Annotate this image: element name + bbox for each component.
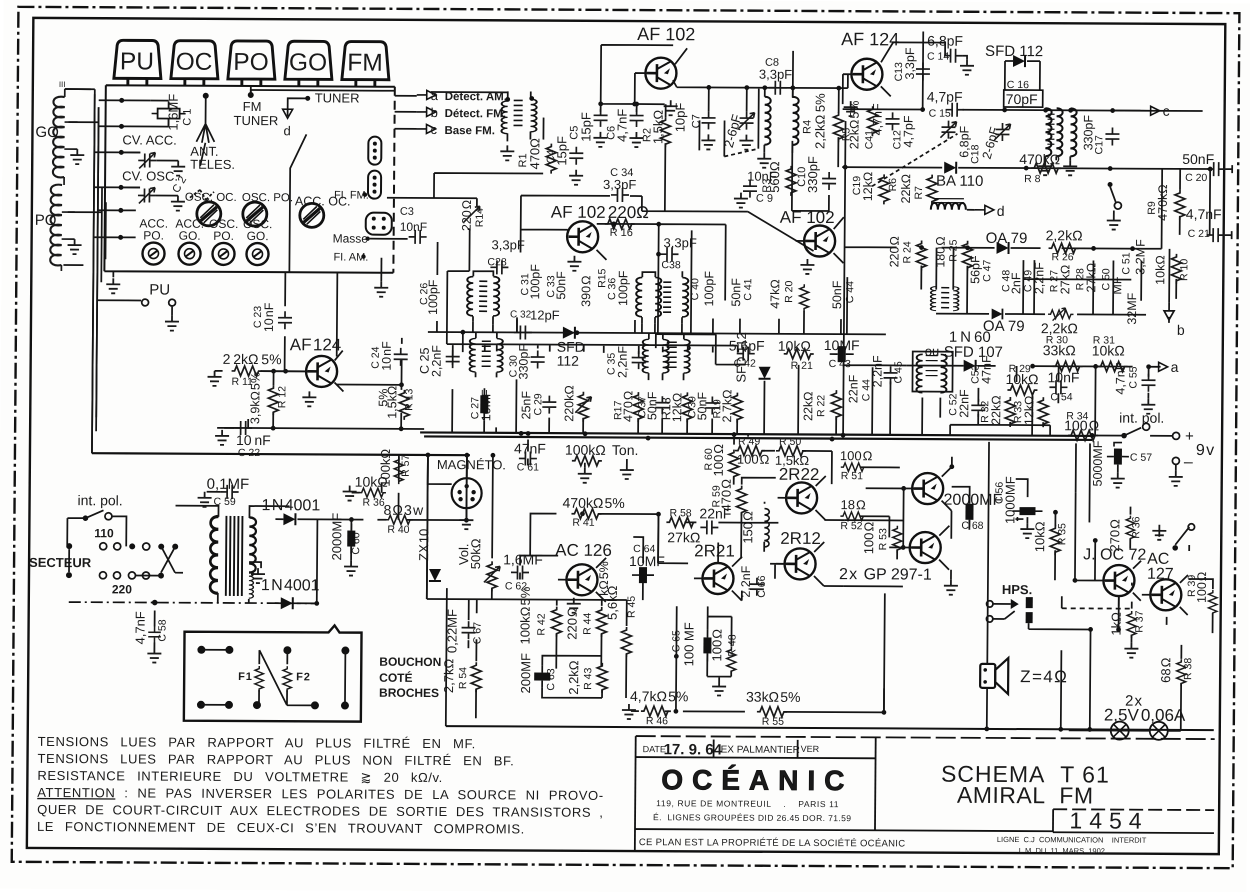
svg-text:R 20: R 20 bbox=[783, 280, 795, 302]
svg-text:COTÉ: COTÉ bbox=[379, 670, 412, 685]
svg-text:AC 126: AC 126 bbox=[555, 541, 612, 560]
svg-text:10 nF: 10 nF bbox=[262, 302, 276, 332]
svg-text:AF 102: AF 102 bbox=[637, 24, 695, 44]
svg-text:R 36: R 36 bbox=[363, 497, 385, 509]
svg-text:R 44: R 44 bbox=[582, 612, 594, 634]
svg-text:LIGNE C.J COMMUNICATION I: LIGNE C.J COMMUNICATION INTERDIT bbox=[997, 835, 1147, 845]
svg-text:47nF: 47nF bbox=[979, 355, 993, 384]
svg-text:R 50: R 50 bbox=[779, 436, 801, 448]
svg-text:DATE: DATE bbox=[643, 744, 666, 754]
svg-text:C 57: C 57 bbox=[1130, 452, 1152, 464]
svg-text:R 43: R 43 bbox=[582, 667, 594, 689]
svg-text:10nF: 10nF bbox=[1047, 369, 1079, 385]
svg-text:d: d bbox=[997, 203, 1005, 219]
svg-text:TENSIONS LUES PAR RAPPORT: TENSIONS LUES PAR RAPPORT AU PLUS NON FI… bbox=[37, 751, 514, 768]
svg-text:C 58: C 58 bbox=[156, 619, 168, 641]
svg-text:180 Ω: 180 Ω bbox=[933, 236, 947, 267]
svg-text:R14: R14 bbox=[474, 208, 486, 227]
svg-text:Détect. AM.: Détect. AM. bbox=[445, 91, 507, 103]
svg-text:50nF: 50nF bbox=[645, 391, 659, 420]
svg-text:10pF: 10pF bbox=[672, 103, 687, 133]
svg-text:18 Ω: 18 Ω bbox=[840, 497, 866, 512]
svg-text:R 24: R 24 bbox=[901, 241, 913, 263]
svg-text:1kΩ: 1kΩ bbox=[1109, 612, 1124, 636]
svg-text:22nF: 22nF bbox=[846, 374, 860, 403]
svg-text:C3: C3 bbox=[400, 206, 414, 218]
svg-text:C 14: C 14 bbox=[927, 51, 949, 63]
svg-text:É. LIGNES GROUPÉES DID 26.45: É. LIGNES GROUPÉES DID 26.45 DOR. 71.59 bbox=[653, 812, 851, 823]
svg-text:–: – bbox=[1184, 454, 1193, 471]
svg-text:22nF: 22nF bbox=[957, 389, 971, 418]
svg-text:2R12: 2R12 bbox=[780, 529, 821, 548]
svg-text:220 Ω: 220 Ω bbox=[460, 200, 474, 231]
svg-text:c: c bbox=[430, 122, 437, 137]
svg-text:22kΩ: 22kΩ bbox=[899, 174, 913, 204]
svg-text:100kΩ 5%: 100kΩ 5% bbox=[517, 586, 532, 644]
svg-text:270 Ω: 270 Ω bbox=[1107, 519, 1122, 552]
svg-text:150 Ω: 150 Ω bbox=[740, 511, 755, 544]
svg-text:R 52: R 52 bbox=[840, 520, 862, 532]
svg-text:100 MF: 100 MF bbox=[681, 622, 696, 666]
svg-text:C 1: C 1 bbox=[182, 109, 194, 126]
svg-text:33kΩ: 33kΩ bbox=[1043, 342, 1076, 358]
svg-text:R 54: R 54 bbox=[457, 667, 469, 689]
svg-text:R7: R7 bbox=[913, 186, 925, 200]
svg-text:15pF: 15pF bbox=[578, 112, 593, 142]
svg-text:R 12: R 12 bbox=[276, 386, 288, 408]
svg-text:3,3pF: 3,3pF bbox=[603, 177, 636, 192]
svg-text:ZX 10: ZX 10 bbox=[416, 529, 431, 561]
svg-text:CV. ACC.: CV. ACC. bbox=[122, 132, 177, 147]
svg-text:47kΩ: 47kΩ bbox=[768, 279, 782, 309]
svg-text:C 26: C 26 bbox=[418, 283, 430, 305]
svg-text:2,2kΩ: 2,2kΩ bbox=[566, 660, 581, 695]
svg-text:R 8: R 8 bbox=[1024, 173, 1041, 185]
svg-text:2 2kΩ 5%: 2 2kΩ 5% bbox=[223, 351, 282, 367]
svg-text:AF 124: AF 124 bbox=[290, 335, 342, 354]
svg-text:4,7nF: 4,7nF bbox=[1113, 362, 1127, 394]
svg-text:OA 79: OA 79 bbox=[986, 230, 1028, 247]
svg-text:2R22: 2R22 bbox=[779, 465, 820, 484]
svg-text:100kΩ: 100kΩ bbox=[378, 449, 393, 487]
svg-text:1,5kΩ: 1,5kΩ bbox=[385, 386, 399, 419]
svg-text:AMIRAL FM: AMIRAL FM bbox=[957, 782, 1094, 809]
svg-text:9 v: 9 v bbox=[1196, 442, 1214, 459]
svg-text:22kΩ: 22kΩ bbox=[989, 395, 1003, 425]
svg-text:R6: R6 bbox=[887, 178, 899, 192]
svg-text:100 Ω: 100 Ω bbox=[711, 444, 726, 477]
svg-text:BROCHES: BROCHES bbox=[379, 686, 439, 700]
svg-text:10kΩ: 10kΩ bbox=[1092, 342, 1125, 358]
svg-text:C 41: C 41 bbox=[742, 278, 754, 300]
svg-text:220Ω: 220Ω bbox=[608, 203, 649, 222]
svg-text:TELES.: TELES. bbox=[190, 157, 235, 172]
svg-text:12pF: 12pF bbox=[530, 307, 560, 322]
svg-text:Z = 4 Ω: Z = 4 Ω bbox=[1020, 667, 1067, 686]
svg-text:100 Ω: 100 Ω bbox=[861, 521, 876, 554]
svg-text:AF 102: AF 102 bbox=[551, 203, 606, 222]
svg-text:Base FM.: Base FM. bbox=[444, 125, 495, 137]
svg-text:GO.: GO. bbox=[247, 229, 269, 243]
svg-text:BA 110: BA 110 bbox=[936, 173, 983, 190]
svg-text:PO: PO bbox=[233, 49, 269, 76]
svg-text:119, RUE DE MONTREUIL .: 119, RUE DE MONTREUIL . PARIS 11 bbox=[656, 798, 839, 809]
svg-text:10MF: 10MF bbox=[629, 553, 665, 569]
svg-text:GO.: GO. bbox=[179, 229, 201, 243]
svg-text:1 N 4001: 1 N 4001 bbox=[261, 497, 320, 514]
svg-text:2,7kΩ: 2,7kΩ bbox=[441, 658, 456, 693]
svg-text:3,3pF: 3,3pF bbox=[492, 237, 525, 252]
svg-text:22kΩ: 22kΩ bbox=[801, 391, 815, 421]
svg-text:R 53: R 53 bbox=[877, 528, 889, 550]
svg-text:b: b bbox=[1177, 322, 1185, 338]
svg-text:50nF: 50nF bbox=[695, 392, 709, 421]
svg-text:32MF: 32MF bbox=[1125, 292, 1139, 324]
svg-text:3,3pF: 3,3pF bbox=[903, 47, 917, 79]
svg-text:TUNER: TUNER bbox=[315, 90, 360, 105]
svg-text:50nF: 50nF bbox=[554, 271, 568, 300]
svg-text:50nF: 50nF bbox=[729, 278, 743, 307]
svg-text:100 Ω: 100 Ω bbox=[709, 629, 724, 662]
svg-text:4,7pF: 4,7pF bbox=[901, 115, 915, 147]
svg-text:PU: PU bbox=[149, 282, 170, 299]
svg-text:GO: GO bbox=[289, 49, 327, 76]
svg-text:R 37: R 37 bbox=[1134, 610, 1146, 632]
svg-text:5000MF: 5000MF bbox=[1091, 440, 1105, 486]
svg-text:R 51: R 51 bbox=[841, 470, 863, 482]
svg-text:int. pol.: int. pol. bbox=[1119, 410, 1164, 426]
svg-text:27kΩ: 27kΩ bbox=[1084, 263, 1098, 293]
svg-text:100 Ω: 100 Ω bbox=[737, 452, 770, 467]
svg-text:CE PLAN EST LA PROPRIÉTÉ DE LA: CE PLAN EST LA PROPRIÉTÉ DE LA SOCIÉTÉ O… bbox=[639, 837, 906, 849]
svg-text:TUNER: TUNER bbox=[233, 113, 278, 128]
svg-text:VER: VER bbox=[801, 744, 820, 754]
svg-text:2 x GP 297-1: 2 x GP 297-1 bbox=[839, 566, 932, 583]
svg-text:220: 220 bbox=[112, 582, 132, 596]
svg-text:68 Ω: 68 Ω bbox=[1158, 657, 1173, 683]
svg-text:390 Ω: 390 Ω bbox=[579, 276, 593, 307]
svg-text:2,2nF: 2,2nF bbox=[616, 346, 630, 378]
svg-text:C 32: C 32 bbox=[510, 309, 532, 320]
svg-text:100 Ω: 100 Ω bbox=[840, 448, 873, 463]
svg-text:1 N 4001: 1 N 4001 bbox=[261, 577, 320, 594]
svg-text:3,2MF: 3,2MF bbox=[1133, 239, 1147, 275]
svg-text:a: a bbox=[1171, 359, 1179, 375]
svg-text:OCÉANIC: OCÉANIC bbox=[661, 764, 853, 796]
svg-text:III: III bbox=[59, 80, 66, 89]
svg-text:2,2kΩ 5%: 2,2kΩ 5% bbox=[812, 93, 827, 149]
svg-text:R 42: R 42 bbox=[536, 613, 548, 635]
svg-text:10nF: 10nF bbox=[400, 220, 427, 234]
svg-text:F 2: F 2 bbox=[296, 671, 310, 683]
svg-text:470kΩ: 470kΩ bbox=[1019, 151, 1060, 167]
svg-text:C41: C41 bbox=[863, 130, 875, 149]
svg-text:1,6MF: 1,6MF bbox=[503, 551, 543, 567]
svg-text:R 21: R 21 bbox=[791, 360, 813, 372]
svg-text:R 22: R 22 bbox=[815, 395, 827, 417]
svg-text:FM: FM bbox=[347, 50, 383, 77]
svg-text:C 42: C 42 bbox=[734, 358, 756, 370]
svg-text:470kΩ: 470kΩ bbox=[1156, 184, 1170, 221]
svg-text:FM: FM bbox=[243, 99, 262, 114]
svg-text:10kΩ: 10kΩ bbox=[1005, 371, 1038, 387]
svg-text:470Ω: 470Ω bbox=[527, 138, 542, 170]
svg-text:PO.: PO. bbox=[143, 228, 164, 242]
svg-text:4,7kΩ 5%: 4,7kΩ 5% bbox=[630, 688, 688, 704]
svg-text:50nF: 50nF bbox=[830, 280, 844, 309]
svg-text:MAGNÉTO.: MAGNÉTO. bbox=[437, 457, 506, 472]
svg-text:OC: OC bbox=[176, 49, 213, 76]
svg-text:LE FONCTIONNEMENT DE CEUX-C: LE FONCTIONNEMENT DE CEUX-CI S’EN TROUVA… bbox=[37, 819, 525, 837]
svg-text:330pF: 330pF bbox=[517, 344, 531, 380]
svg-text:470 Ω: 470 Ω bbox=[621, 391, 635, 422]
svg-text:R 26: R 26 bbox=[1051, 251, 1073, 263]
svg-text:C 44: C 44 bbox=[844, 281, 856, 303]
svg-text:C 21: C 21 bbox=[1188, 228, 1210, 240]
svg-text:3,3pF: 3,3pF bbox=[759, 67, 792, 82]
svg-text:220 Ω: 220 Ω bbox=[564, 607, 579, 640]
svg-text:5,6kΩ: 5,6kΩ bbox=[605, 585, 620, 620]
svg-text:int. pol.: int. pol. bbox=[78, 492, 123, 508]
svg-text:50nF: 50nF bbox=[1182, 151, 1214, 167]
svg-text:CV. OSC.: CV. OSC. bbox=[122, 168, 178, 183]
svg-text:SECTEUR: SECTEUR bbox=[29, 555, 92, 570]
svg-text:C 16: C 16 bbox=[1007, 79, 1029, 91]
svg-text:R 41: R 41 bbox=[572, 517, 594, 529]
svg-text:12kΩ: 12kΩ bbox=[1022, 396, 1036, 426]
svg-text:470kΩ 5%: 470kΩ 5% bbox=[562, 495, 624, 511]
svg-text:2,2kΩ: 2,2kΩ bbox=[1046, 227, 1083, 243]
svg-text:R5: R5 bbox=[840, 128, 852, 142]
svg-text:33kΩ 5%: 33kΩ 5% bbox=[746, 689, 801, 705]
svg-text:10kΩ: 10kΩ bbox=[1032, 521, 1047, 552]
svg-text:330pF: 330pF bbox=[805, 156, 820, 193]
svg-text:100 Ω: 100 Ω bbox=[1195, 572, 1209, 603]
svg-text:HPS.: HPS. bbox=[1002, 582, 1032, 597]
svg-text:50kΩ: 50kΩ bbox=[468, 538, 483, 569]
svg-text:R 55: R 55 bbox=[762, 716, 784, 728]
svg-text:ATTENTION : NE PAS INVERSER: ATTENTION : NE PAS INVERSER LES POLARITE… bbox=[37, 785, 603, 803]
svg-text:PU: PU bbox=[120, 48, 154, 75]
svg-text:100pF: 100pF bbox=[528, 264, 542, 300]
svg-text:17. 9. 64: 17. 9. 64 bbox=[664, 741, 723, 758]
svg-text:4,7nF: 4,7nF bbox=[132, 611, 147, 644]
svg-text:10kΩ: 10kΩ bbox=[1153, 255, 1167, 285]
svg-text:C7: C7 bbox=[690, 114, 702, 128]
svg-text:Ton.: Ton. bbox=[612, 442, 639, 458]
svg-text:220 Ω: 220 Ω bbox=[887, 236, 901, 267]
svg-text:C 29: C 29 bbox=[532, 393, 544, 415]
svg-text:C17: C17 bbox=[1093, 135, 1105, 154]
svg-text:C 47: C 47 bbox=[981, 260, 993, 282]
svg-text:QUER DE COURT-CIRCUIT AUX: QUER DE COURT-CIRCUIT AUX ELECTRODES DE … bbox=[37, 802, 603, 820]
svg-text:12kΩ: 12kΩ bbox=[861, 172, 875, 202]
svg-text:4,7pF: 4,7pF bbox=[927, 89, 963, 105]
svg-text:R 16: R 16 bbox=[610, 227, 633, 239]
svg-text:220kΩ: 220kΩ bbox=[562, 385, 576, 422]
svg-text:TENSIONS LUES PAR RAPPORT: TENSIONS LUES PAR RAPPORT AU PLUS FILTRÉ… bbox=[38, 734, 476, 751]
svg-text:2R21: 2R21 bbox=[694, 541, 735, 560]
svg-text:Détect. FM.: Détect. FM. bbox=[445, 108, 506, 120]
svg-text:EX PALMANTIER: EX PALMANTIER bbox=[721, 745, 800, 756]
svg-text:2,2nF: 2,2nF bbox=[739, 565, 753, 597]
svg-text:70pF: 70pF bbox=[1006, 91, 1038, 107]
svg-text:+: + bbox=[1185, 428, 1194, 445]
svg-text:PO.: PO. bbox=[213, 229, 234, 243]
svg-text:C 68: C 68 bbox=[961, 520, 983, 532]
svg-text:BOUCHON: BOUCHON bbox=[379, 655, 441, 669]
svg-text:Masse: Masse bbox=[333, 231, 369, 245]
svg-text:560Ω: 560Ω bbox=[767, 161, 782, 193]
svg-text:R 58: R 58 bbox=[669, 507, 691, 519]
svg-text:C 20: C 20 bbox=[1185, 172, 1207, 184]
svg-text:15pF: 15pF bbox=[554, 136, 569, 166]
svg-text:200MF: 200MF bbox=[518, 653, 533, 694]
svg-text:c: c bbox=[1163, 103, 1170, 119]
svg-text:R 40: R 40 bbox=[387, 524, 409, 536]
svg-text:4,7nF: 4,7nF bbox=[1186, 206, 1222, 222]
svg-text:1454: 1454 bbox=[1069, 807, 1148, 833]
svg-text:112: 112 bbox=[557, 353, 580, 369]
svg-text:d: d bbox=[283, 123, 290, 138]
svg-text:100pF: 100pF bbox=[616, 270, 630, 306]
svg-text:C 9: C 9 bbox=[756, 193, 773, 205]
svg-text:1,6MF: 1,6MF bbox=[165, 94, 180, 131]
svg-text:4,7nF: 4,7nF bbox=[614, 109, 629, 142]
svg-text:b: b bbox=[431, 105, 438, 120]
svg-text:110: 110 bbox=[94, 526, 114, 540]
svg-text:R 46: R 46 bbox=[646, 715, 668, 727]
svg-text:RESISTANCE INTERIEURE DU VO: RESISTANCE INTERIEURE DU VOLTMETRE ⪆ 20 … bbox=[37, 768, 443, 785]
svg-text:C 51: C 51 bbox=[1120, 252, 1132, 274]
svg-text:22nF: 22nF bbox=[699, 505, 731, 521]
svg-text:F 1: F 1 bbox=[238, 671, 252, 683]
svg-text:2,2nF: 2,2nF bbox=[430, 345, 444, 377]
svg-text:a: a bbox=[431, 88, 439, 103]
svg-text:3,9kΩ 5%: 3,9kΩ 5% bbox=[248, 372, 262, 424]
svg-text:C 55: C 55 bbox=[1127, 366, 1139, 388]
svg-text:1000MF: 1000MF bbox=[1002, 476, 1017, 524]
svg-text:10 nF: 10 nF bbox=[380, 341, 394, 371]
svg-text:R 49: R 49 bbox=[738, 436, 760, 448]
svg-text:100pF: 100pF bbox=[702, 271, 716, 307]
svg-text:L.M DU 11 MARS 1902: L.M DU 11 MARS 1902 bbox=[1019, 846, 1105, 855]
